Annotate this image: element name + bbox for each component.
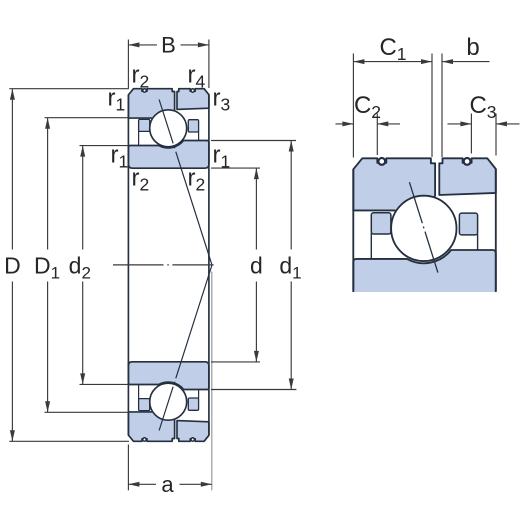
svg-text:b: b [466, 34, 479, 61]
dimension d2 [82, 146, 84, 250]
ball [150, 110, 187, 147]
outer ring left half (enlarged view) [353, 158, 435, 212]
extension line: groove left edge [431, 54, 433, 158]
extension line: D top [9, 88, 129, 90]
dimension d1 [290, 141, 292, 250]
cage pocket left [139, 119, 150, 131]
bearing right face line [208, 95, 210, 436]
svg-text:r3: r3 [213, 85, 231, 115]
cage guide line left [138, 131, 140, 146]
svg-text:d1: d1 [279, 253, 301, 283]
extension line: d top [211, 167, 260, 169]
extension line: D bottom [9, 440, 129, 442]
dimension C2 tail right [377, 123, 400, 125]
dimension C3 arrow right [496, 121, 507, 126]
extension line: C2 hole [376, 114, 378, 156]
dimension C3 tail left [448, 123, 472, 125]
dimension C1 arrow left [353, 59, 364, 64]
svg-text:C2: C2 [354, 92, 381, 122]
svg-text:r4: r4 [188, 62, 206, 92]
dimension C2 arrow left [342, 121, 353, 126]
dimension C2 arrow right [377, 121, 388, 126]
bearing left face line [127, 95, 129, 435]
dimension b arrow line [442, 61, 490, 63]
dimension d [255, 168, 257, 249]
extension line: B left [127, 40, 129, 89]
dimension D1 [47, 118, 49, 250]
outer ring right half (enlarged view) [439, 158, 496, 195]
dimension D [11, 89, 13, 250]
dimension C3 arrow left [460, 121, 471, 126]
svg-text:r2: r2 [132, 62, 150, 92]
ball (enlarged view) [391, 196, 456, 261]
upper bearing section of main view [128, 89, 212, 265]
cage pocket right (enlarged) [459, 213, 477, 235]
lower bearing section (mirror image) [128, 265, 212, 441]
lubrication hole right [191, 89, 194, 92]
dimension a line [128, 483, 156, 485]
extension line: D1 bottom [45, 411, 129, 413]
extension line: D1 top [45, 117, 129, 119]
cage guide line right [477, 234, 479, 250]
extension line: right face [495, 114, 497, 156]
cage guide line left [370, 233, 372, 259]
extension line: d2 bottom [80, 383, 129, 385]
right face line (enlarged) [495, 169, 497, 291]
cage pocket right [188, 120, 198, 132]
dimension C1 arrow right [421, 59, 432, 64]
outer ring right half [177, 89, 209, 110]
cage pocket left (enlarged) [371, 213, 391, 234]
left face line (enlarged) [352, 169, 354, 290]
cage guide line right [198, 132, 200, 141]
outer ring left half [128, 89, 174, 119]
extension line: a left [127, 445, 129, 491]
bearing axis centerline [113, 264, 214, 266]
lubrication hole left [143, 89, 146, 92]
svg-text:C3: C3 [469, 92, 496, 122]
extension line: d2 top [80, 145, 129, 147]
svg-text:C1: C1 [379, 34, 406, 64]
dimension C1 line [353, 61, 432, 63]
inner ring outline [353, 250, 496, 292]
extension line: d1 top [211, 140, 296, 142]
svg-text:r1: r1 [213, 142, 231, 172]
extension line: contact apex (a) [211, 272, 213, 491]
svg-text:B: B [161, 33, 176, 58]
dimension B arrow left [128, 42, 139, 47]
dimension B line [128, 44, 157, 46]
inner ring (enlarged view, cropped bottom) [353, 250, 496, 292]
lubrication hole right (enlarged) [464, 158, 471, 165]
extension line: C3 hole [470, 114, 472, 154]
svg-text:D: D [4, 253, 21, 279]
contact angle centerline (enlarged) [409, 182, 438, 272]
contact angle line [159, 100, 212, 266]
dimension C3 tail right [496, 123, 520, 125]
extension line: left face [352, 54, 354, 158]
dimension b arrow [442, 59, 453, 64]
extension line: groove right edge [441, 54, 443, 158]
extension line: B right [208, 40, 210, 89]
dimension C2 tail left [336, 123, 354, 125]
svg-text:a: a [161, 472, 174, 497]
svg-text:D1: D1 [34, 253, 60, 283]
extension line: d1 bottom [211, 389, 296, 391]
extension line: d bottom [211, 361, 260, 363]
svg-text:d: d [250, 253, 263, 279]
inner ring [128, 141, 209, 169]
dimension B arrow right [198, 42, 209, 47]
svg-text:d2: d2 [69, 253, 91, 283]
dimension a arrow right [201, 482, 212, 487]
lubrication hole left (enlarged) [378, 158, 385, 165]
dimension a arrow left [128, 482, 139, 487]
